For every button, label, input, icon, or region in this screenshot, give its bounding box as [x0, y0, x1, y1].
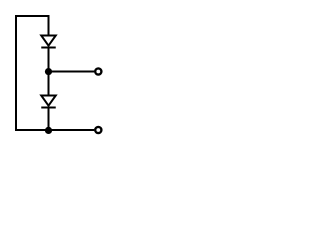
terminal: upper open-circle terminal	[95, 68, 101, 74]
wire: D2 cathode down to bottom junction	[48, 108, 50, 131]
node: middle junction dot	[45, 68, 52, 75]
wire: top segment of middle branch into D1 anode	[48, 15, 50, 36]
diode D2 (cathode down)	[41, 96, 56, 108]
wire: middle junction to upper terminal	[49, 71, 95, 73]
wire: left loop (bottom-left corner up left side and across top to diode branch)	[16, 16, 49, 130]
wire: middle junction down to D2 anode	[48, 72, 50, 97]
node: bottom junction dot	[45, 127, 52, 134]
diode D1 (cathode down)	[41, 36, 56, 48]
wire: bottom rail from left loop to lower terminal	[15, 129, 94, 131]
wire: D1 cathode down to middle junction	[48, 48, 50, 73]
terminal: lower open-circle terminal	[95, 127, 101, 133]
